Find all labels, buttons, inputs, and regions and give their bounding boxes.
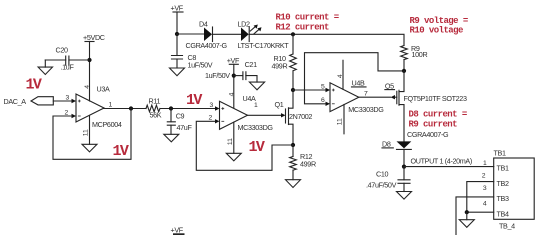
wire U4A out to Q1 gate [248,114,282,116]
resistor R11 [146,97,162,120]
wire [53,100,72,102]
svg-text:499R: 499R [300,160,316,169]
node R9 / U4B sense / Q5 source [402,69,406,73]
svg-text:11: 11 [227,138,234,145]
svg-text:C9: C9 [176,112,185,121]
wire U4B pin6 sense loop [305,53,405,104]
svg-text:499R: 499R [272,62,288,71]
svg-text:.47uF/50V: .47uF/50V [366,181,397,190]
wire R11 to U4A pin3 [160,108,215,110]
ground (U3A pin 11) [82,144,97,152]
svg-text:TB1: TB1 [494,149,506,158]
svg-text:+VF: +VF [171,4,184,13]
svg-text:2: 2 [209,115,213,122]
diode D8 [382,130,449,167]
node rail / R10 [291,32,295,36]
svg-text:1uF/50V: 1uF/50V [205,71,230,80]
LED LD2 [238,20,290,50]
svg-text:U3A: U3A [97,85,110,94]
power +VF (U4A) [227,56,240,65]
svg-text:R10 voltage: R10 voltage [410,26,464,36]
power +VF (top) [171,4,184,35]
svg-text:4: 4 [229,92,236,96]
svg-text:TB4: TB4 [497,209,509,218]
svg-text:R9 voltage =: R9 voltage = [410,16,468,26]
node TB pin2/pin4 [465,210,469,214]
wire D4 to LD2 [213,33,242,35]
terminal block TB1 [456,149,534,236]
svg-text:3: 3 [66,95,70,102]
svg-text:11: 11 [336,118,343,125]
node R11/C9 [169,106,173,110]
wire [69,59,90,61]
svg-text:C20: C20 [56,46,68,55]
node +5VDC / C20 junction [87,58,91,62]
svg-text:100R: 100R [412,50,428,59]
svg-text:CGRA4007-G: CGRA4007-G [186,41,228,50]
svg-text:4: 4 [483,201,487,208]
svg-text:5: 5 [321,83,325,90]
svg-text:MC3303DG: MC3303DG [238,123,274,132]
svg-text:R12 current: R12 current [276,23,330,33]
node D8 / C10 / output [402,165,406,169]
svg-text:LD2: LD2 [238,20,250,29]
svg-text:U4B: U4B [352,79,365,88]
svg-text:D4: D4 [199,20,208,29]
pin 11 stub [343,105,345,134]
ground (C8) [170,68,185,76]
capacitor C8 [172,34,213,70]
svg-text:1: 1 [254,102,258,109]
svg-text:D8 current =: D8 current = [409,110,467,120]
wire OUTPUT 1 [404,166,494,168]
svg-text:1uF/50V: 1uF/50V [188,61,213,70]
svg-text:R9 current: R9 current [409,120,458,130]
pin 11 [233,122,235,153]
diode D4 [186,20,228,50]
capacitor C20 [45,46,89,72]
wire U3A output [104,108,146,110]
capacitor C10 [366,167,410,192]
ground (U4A pin 11) [226,153,241,161]
svg-text:Q5: Q5 [385,81,394,90]
resistor R10 [272,34,297,90]
op-amp U4B [321,60,384,134]
wire Q1 drain to U4B pin5 [293,89,326,91]
svg-text:R10 current =: R10 current = [276,13,339,23]
transistor Q1 [275,90,313,145]
op-amp U3A [65,85,122,145]
svg-text:47uF: 47uF [177,123,193,132]
svg-text:6: 6 [321,97,325,104]
svg-text:C21: C21 [245,60,257,69]
power +5VDC [83,33,105,101]
power +VF (bottom) [171,226,184,235]
svg-text:MC3303DG: MC3303DG [348,105,384,114]
svg-text:FQT5P10TF SOT223: FQT5P10TF SOT223 [404,94,467,103]
svg-text:1V: 1V [249,139,265,156]
svg-text:+5VDC: +5VDC [83,33,105,42]
node U3A output/feedback [129,106,133,110]
ground (R12) [286,180,301,188]
svg-text:CGRA4007-G: CGRA4007-G [407,130,449,139]
svg-text:OUTPUT 1 (4-20mA): OUTPUT 1 (4-20mA) [411,157,472,166]
svg-text:2: 2 [482,173,486,180]
pin 11 [89,116,91,145]
svg-text:7: 7 [364,91,368,98]
resistor R12 [290,145,316,180]
port DAC_A [4,97,73,106]
LED arrows [250,26,256,31]
svg-text:R11: R11 [149,97,161,106]
ground (TB) [459,212,474,227]
wire top rail [177,33,204,35]
pin 4 [233,64,235,108]
svg-text:1V: 1V [113,143,129,160]
svg-text:TB2: TB2 [497,179,509,188]
transistor Q5 [385,71,467,142]
svg-text:DAC_A: DAC_A [4,97,27,106]
resistor R9 [401,44,428,71]
ground (C20) [38,60,52,75]
wire U4B out to Q5 gate [359,96,391,98]
svg-text:1: 1 [109,102,113,109]
wire LD2 to R9 corner [249,34,404,45]
svg-text:4: 4 [84,85,91,89]
svg-text:56K: 56K [150,111,162,120]
svg-text:.1uF: .1uF [61,63,75,72]
svg-text:+VF: +VF [171,226,184,235]
pin 4 stub [342,60,344,89]
svg-text:1V: 1V [186,92,202,109]
svg-text:TB1: TB1 [497,164,509,173]
svg-text:+VF: +VF [227,56,240,65]
ground (C21) [249,82,264,90]
svg-text:MCP6004: MCP6004 [92,120,122,129]
node +VF rail / C8 [175,32,179,36]
wire U4A feedback loop [196,121,293,170]
wire [45,59,65,61]
svg-text:3: 3 [210,102,214,109]
svg-text:1: 1 [483,160,487,167]
node Q1 source / R12 / feedback [291,143,295,147]
svg-text:4: 4 [337,74,344,78]
svg-text:2N7002: 2N7002 [289,112,312,121]
svg-text:LTST-C170KRKT: LTST-C170KRKT [238,41,290,50]
wire U3A feedback loop [53,109,131,160]
svg-text:3: 3 [483,185,487,192]
svg-text:C10: C10 [376,170,388,179]
node U4A pin4 / C21 [232,74,236,78]
svg-text:TB_4: TB_4 [499,222,515,231]
op-amp U4A [209,64,274,153]
svg-text:D8: D8 [382,140,391,149]
svg-text:Q1: Q1 [275,100,284,109]
svg-text:11: 11 [82,129,89,136]
ground (C9) [164,134,179,142]
ground (C10) [397,192,412,200]
svg-text:1V: 1V [26,77,42,94]
svg-text:TB3: TB3 [497,194,509,203]
node R10 / Q1 drain / U4B pin5 [291,88,295,92]
capacitor C21 [234,60,257,82]
capacitor C9 [167,109,192,135]
